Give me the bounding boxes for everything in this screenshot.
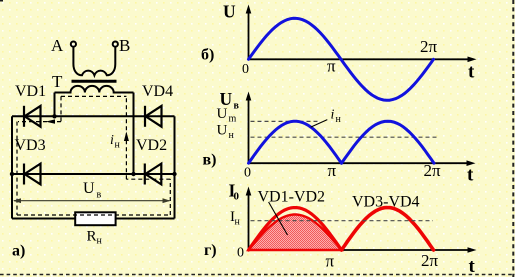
right dashed page border <box>512 0 514 277</box>
wire secondary left down <box>54 93 56 117</box>
sine curve graph б <box>249 18 434 100</box>
svg-text:2π: 2π <box>421 251 439 270</box>
filled hump VD1-VD2 <box>249 215 342 251</box>
svg-text:г): г) <box>204 242 217 259</box>
resistor Rн <box>75 212 115 225</box>
transformer core <box>72 80 117 83</box>
wire dashed top under secondary <box>61 95 126 97</box>
svg-text:н: н <box>97 236 103 247</box>
wire right edge <box>174 116 176 218</box>
svg-text:а): а) <box>12 243 25 260</box>
svg-text:i: i <box>331 108 335 123</box>
diode VD3 <box>24 164 41 185</box>
svg-text:U: U <box>83 180 95 197</box>
svg-text:VD2: VD2 <box>136 137 167 154</box>
bottom dashed page border <box>0 274 515 276</box>
diode VD1 <box>24 106 41 127</box>
terminal B circle <box>113 42 118 47</box>
svg-text:б): б) <box>201 47 214 64</box>
svg-text:2π: 2π <box>420 37 438 56</box>
terminal A circle <box>71 42 76 47</box>
wire secondary right down <box>133 93 135 175</box>
junction node secondary-left / top line <box>52 114 56 118</box>
axes graph г (I0 vs t) <box>249 194 471 250</box>
dashed current loop <box>17 96 170 215</box>
svg-text:в: в <box>97 190 102 201</box>
svg-text:B: B <box>119 36 130 55</box>
dashed level Um <box>251 120 319 122</box>
arrow current up (iн) <box>124 132 129 142</box>
axis arrowheads graph б <box>246 5 252 14</box>
dashed level Un <box>251 136 439 138</box>
rectified hump 2 <box>342 121 435 163</box>
wire bridge top line <box>12 115 175 117</box>
svg-text:VD4: VD4 <box>142 83 173 100</box>
svg-text:t: t <box>468 62 475 83</box>
svg-text:m: m <box>229 114 237 125</box>
wire dashed left-upper vertical <box>60 96 62 121</box>
diode VD2 <box>145 164 162 185</box>
rectified hump 1 <box>249 121 342 163</box>
svg-text:н: н <box>229 130 235 141</box>
svg-text:t: t <box>469 256 476 277</box>
svg-text:i: i <box>110 133 114 148</box>
wire dashed mid horizontal <box>126 178 170 180</box>
leader line to iн <box>311 120 328 128</box>
junction node left edge / VD3 line <box>10 172 14 176</box>
outer red curve hump 1 <box>249 208 342 250</box>
red curve hump 2 VD3-VD4 <box>342 208 434 251</box>
svg-text:0: 0 <box>234 191 240 203</box>
arrow current left (near VD1) <box>46 119 56 123</box>
svg-text:VD3: VD3 <box>15 137 46 154</box>
svg-text:R: R <box>87 229 97 245</box>
junction node right edge / VD2 line <box>172 172 176 176</box>
svg-text:0: 0 <box>237 246 244 261</box>
wire bridge mid line VD3-VD2 <box>12 173 175 175</box>
wire dashed iн vertical <box>125 96 127 179</box>
svg-text:0: 0 <box>244 166 251 181</box>
svg-text:U: U <box>217 123 228 139</box>
top-left corner dash <box>0 0 3 2</box>
svg-text:VD1: VD1 <box>15 83 46 100</box>
dashed level In <box>251 220 434 222</box>
svg-text:T: T <box>52 72 63 91</box>
svg-text:U: U <box>223 2 236 22</box>
svg-text:2π: 2π <box>424 161 442 180</box>
wire dashed left vertical <box>16 122 18 215</box>
svg-text:t: t <box>467 165 474 186</box>
diode VD4 <box>145 106 162 127</box>
svg-text:н: н <box>115 140 121 151</box>
axes graph в (Uв vs t) <box>249 99 470 163</box>
svg-text:в: в <box>234 101 240 112</box>
wire dashed right vertical <box>169 179 171 215</box>
junction node secondary-right / VD2 line <box>131 172 135 176</box>
axes graph б (U vs t) <box>249 12 471 59</box>
wire dashed upper horizontal toward VD1 <box>18 121 61 123</box>
wire left edge <box>11 116 13 218</box>
primary winding <box>73 47 115 76</box>
wire bottom <box>12 218 175 220</box>
Uв measure line with arrows <box>13 198 171 203</box>
svg-text:VD1-VD2: VD1-VD2 <box>258 189 326 206</box>
leader line VD1-VD2 <box>269 202 288 235</box>
svg-text:π: π <box>327 57 336 76</box>
svg-text:A: A <box>51 36 64 55</box>
secondary winding <box>55 86 134 93</box>
svg-text:в): в) <box>203 152 217 169</box>
svg-text:π: π <box>326 252 335 271</box>
svg-text:н: н <box>336 114 342 125</box>
svg-text:н: н <box>235 217 241 228</box>
svg-text:U: U <box>217 106 228 122</box>
svg-text:π: π <box>328 161 337 180</box>
wire dashed bottom through resistor <box>17 214 170 216</box>
svg-text:0: 0 <box>242 62 249 77</box>
svg-text:VD3-VD4: VD3-VD4 <box>352 194 420 211</box>
